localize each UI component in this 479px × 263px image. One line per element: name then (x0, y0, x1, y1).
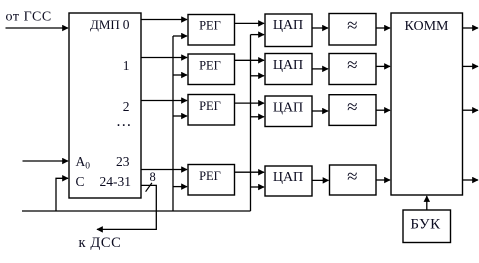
svg-text:ЦАП: ЦАП (273, 18, 303, 33)
block filter4 (330, 165, 377, 195)
svg-text:...: ... (117, 113, 133, 130)
svg-text:ДМП: ДМП (90, 17, 120, 32)
block REG4 (188, 165, 235, 196)
svg-text:ЦАП: ЦАП (273, 100, 303, 115)
wire DMP out 23 to REG4 (141, 169, 187, 171)
wire DAC strobe vertical (250, 35, 252, 211)
block DAC3 (265, 96, 312, 127)
wire input A0 (23, 160, 69, 162)
block BUK (БУК) (403, 210, 451, 243)
wire REG1 to DAC1 (235, 22, 265, 24)
wire strobe to DAC3 (251, 116, 265, 118)
wire DMP out 2 to REG3 (141, 100, 187, 102)
svg-text:ЦАП: ЦАП (273, 58, 303, 73)
svg-text:≈: ≈ (347, 97, 357, 118)
wire KOMM output 4 (463, 179, 479, 181)
block DMP (ДМП demultiplexer) (69, 13, 141, 198)
svg-text:23: 23 (116, 154, 130, 169)
wire input C riser (56, 178, 68, 211)
wire DMP out 0 to REG1 (141, 19, 187, 21)
svg-text:1: 1 (123, 58, 130, 73)
wire strobe bus bottom (22, 210, 251, 212)
svg-text:8: 8 (150, 170, 156, 184)
wire DAC4 to filter4 (312, 179, 329, 181)
svg-text:от ГСС: от ГСС (6, 9, 52, 24)
block REG3 (188, 95, 235, 126)
svg-text:≈: ≈ (347, 16, 357, 37)
wire DAC3 to filter3 (312, 110, 328, 112)
block DAC2 (265, 54, 312, 85)
wire KOMM output 2 (463, 65, 479, 67)
svg-text:РЕГ: РЕГ (199, 19, 221, 33)
wire KOMM output 3 (463, 109, 479, 111)
block DAC4 (265, 166, 312, 196)
block filter2 (329, 54, 376, 85)
wire DAC2 to filter2 (312, 68, 328, 70)
svg-text:≈: ≈ (347, 167, 357, 188)
wire strobe to REG4 (173, 186, 187, 188)
wire REG4 to DAC4 (235, 171, 265, 173)
block filter1 (≈) (329, 14, 376, 46)
wire DMP out 24-31 to DSS (97, 185, 156, 229)
block REG1 (188, 15, 235, 46)
wire filter1 to KOMM (376, 27, 390, 29)
svg-text:к ДСС: к ДСС (79, 235, 122, 251)
wire filter4 to KOMM (376, 179, 390, 181)
wire REG3 to DAC3 (235, 102, 265, 104)
wire strobe to REG1 (173, 35, 187, 37)
bus width slash 8 (146, 183, 152, 192)
svg-text:БУК: БУК (410, 216, 441, 232)
wire REG2 to DAC2 (235, 59, 265, 61)
svg-text:24-31: 24-31 (100, 174, 132, 189)
wire strobe to DAC2 (251, 75, 265, 77)
svg-text:2: 2 (123, 99, 130, 114)
svg-text:0: 0 (123, 17, 130, 32)
wire DMP out 1 to REG2 (141, 57, 187, 59)
wire KOMM output 1 (463, 27, 479, 29)
wire BUK to KOMM (426, 196, 428, 210)
svg-text:ЦАП: ЦАП (273, 170, 303, 185)
block filter3 (329, 95, 376, 126)
wire DAC1 to filter1 (312, 27, 328, 29)
svg-text:РЕГ: РЕГ (199, 58, 221, 72)
svg-text:≈: ≈ (347, 55, 357, 76)
svg-text:КОММ: КОММ (405, 19, 450, 34)
wire input from GSS (6, 27, 69, 29)
wire strobe to REG2 (173, 74, 187, 76)
wire strobe to DAC1 (251, 34, 265, 36)
svg-text:С: С (76, 174, 85, 189)
block KOMM (КОММ commutator) (391, 13, 463, 195)
wire filter3 to KOMM (376, 109, 390, 111)
svg-text:РЕГ: РЕГ (199, 99, 221, 113)
block REG2 (188, 54, 235, 85)
wire strobe to DAC4 (251, 186, 265, 188)
wire filter2 to KOMM (376, 65, 390, 67)
wire strobe to REG3 (173, 115, 187, 117)
wire REG strobe vertical (172, 36, 174, 211)
svg-text:РЕГ: РЕГ (199, 169, 221, 183)
block DAC1 (ЦАП) (265, 14, 312, 47)
